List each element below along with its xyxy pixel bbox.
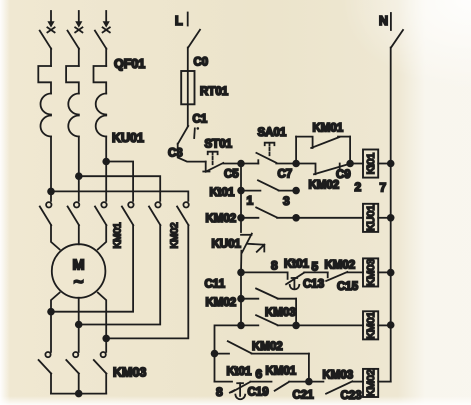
svg-text:7: 7 [380,181,387,195]
node C [102,335,110,343]
star point bar [51,393,106,395]
wire KM02 pole3 down [106,225,188,338]
svg-text:Kt01: Kt01 [227,366,253,378]
wire C19 to KM01 [250,381,271,383]
wire ST01 to C5 [223,163,241,165]
svg-text:KM03: KM03 [323,370,354,382]
node N3 [387,269,395,277]
node C7 [292,160,300,168]
svg-text:KM02: KM02 [325,260,356,272]
contactor coil KM02 [363,369,378,397]
circuit breaker QF01 pole 2 [66,31,79,94]
svg-text:KM01: KM01 [266,366,297,378]
contact Kt01 on-delay [241,272,304,289]
svg-text:C0: C0 [194,57,209,69]
svg-text:C1: C1 [193,114,208,126]
disconnect blade at L [188,30,200,48]
wire node B down [78,325,80,352]
wire KU01 coil to N [378,217,391,219]
svg-text:C23: C23 [341,390,362,402]
svg-text:C13: C13 [303,279,324,291]
svg-text:C5: C5 [224,169,239,181]
node C11 [237,269,245,277]
wire motor to node A [51,293,60,312]
svg-text:6: 6 [256,367,263,381]
node N4 [387,321,395,329]
svg-text:KU01: KU01 [365,205,377,231]
svg-text:3: 3 [283,194,290,208]
svg-text:KM02: KM02 [252,341,283,353]
supply line L3 arrow [103,11,110,32]
wire to KM01 coil [296,324,363,326]
svg-text:C21: C21 [293,390,315,402]
contact KM02 aux-4 [215,341,309,353]
svg-text:C3: C3 [168,148,183,160]
contactor KM02 main contact 2 [149,202,161,225]
wire KM01-3 to motor [98,225,106,249]
svg-text:KM01: KM01 [365,312,377,340]
wire L2 to KM02 pole 2 [79,176,160,201]
wire to KU01 coil [296,217,363,219]
svg-text:KM03: KM03 [113,366,146,380]
svg-text:Kt01: Kt01 [210,187,236,199]
svg-text:L: L [175,14,183,28]
wire N rail [390,48,392,382]
circuit breaker QF01 pole 3 [94,31,107,94]
node C5-2 [237,187,245,195]
contact KM02 aux-2 [326,272,363,281]
node R5L [237,295,245,303]
seal branch left rail [295,137,297,164]
overload relay KU01 element 2 [68,94,79,201]
contactor KM01 main contact 3 [95,202,107,225]
terminal L [175,13,188,29]
node C5-3 [237,214,245,222]
wire R8 to KM03 aux [309,381,324,383]
node R6L [237,322,245,330]
fuse RT01 [181,71,194,126]
contact KM02 aux-1 [241,207,296,217]
node L2 branch [75,172,83,180]
contact Kt01 instant [241,180,296,190]
svg-text:KM02: KM02 [206,297,237,309]
contact KM03 aux-2 [326,381,363,393]
svg-text:KU01: KU01 [112,131,144,145]
wire KM02 pole2 down [79,225,161,324]
svg-text:8: 8 [271,259,278,273]
contact KU01 NC [241,234,264,253]
wire motor to node C [98,293,106,339]
wire C9 to Kt01 coil [350,163,363,165]
terminal N [379,13,391,30]
contact KM03 aux [241,315,296,325]
wire KM01-1 to motor [51,225,60,249]
node A [47,308,55,316]
svg-text:1: 1 [247,194,254,208]
wire rung5 down [295,299,297,326]
circuit breaker QF01 pole 1 [38,31,51,94]
node N2 [387,214,395,222]
wire L3 to KM02 pole 1 [106,162,133,201]
contact KM01 aux [275,382,309,391]
node N1 [387,160,395,168]
wire rung7 down [308,354,310,382]
overload relay KU01 element 3 [96,94,107,201]
contactor KM01 main contact 2 [68,202,80,225]
svg-text:KM02: KM02 [309,180,340,192]
overload relay KU01 element 1 [41,94,52,201]
seal branch right rail [349,137,351,164]
stop button ST01 [203,152,223,172]
svg-text:C7: C7 [278,169,293,181]
contactor KM02 main contact 1 [122,202,134,225]
node C9 [346,160,354,168]
star point node [75,390,83,398]
svg-text:C19: C19 [248,387,269,399]
left rail lower [240,272,242,325]
node C5 [237,160,245,168]
svg-text:C11: C11 [205,279,226,291]
start button SA01 [241,143,296,164]
svg-text:KM03: KM03 [265,307,296,319]
svg-text:C15: C15 [337,281,359,293]
svg-text:RT01: RT01 [200,86,229,98]
contactor KM02 main contact 3 [177,202,189,225]
contactor KM03 contact 2 [66,352,79,394]
svg-text:QF01: QF01 [114,57,145,71]
contactor KM03 contact 1 [39,352,52,394]
svg-text:KM02: KM02 [170,222,181,249]
svg-text:SA01: SA01 [258,127,287,139]
left rail mid [240,251,242,273]
node R3 [292,214,300,222]
svg-text:N: N [379,14,388,28]
wire Kt01 coil to N [378,163,391,165]
svg-text:Kt01: Kt01 [365,153,377,175]
svg-text:~: ~ [74,272,84,291]
svg-text:KM02: KM02 [365,369,377,397]
svg-text:KU01: KU01 [212,239,242,251]
contactor coil KM03 [363,258,378,286]
node branch [211,350,219,358]
wire KM02 coil to N [378,381,391,383]
svg-text:8: 8 [216,385,223,399]
wire L to fuse [187,48,189,72]
timer coil Kt01 [363,150,378,178]
wire KM03 coil to N [378,271,391,273]
svg-text:5: 5 [312,260,319,274]
svg-text:ST01: ST01 [205,139,233,151]
wire motor to node B [78,298,80,325]
svg-text:KM01: KM01 [113,222,124,249]
contactor coil KM01 [363,311,378,339]
wire node C down [105,338,107,352]
wire branch left [215,325,242,381]
node R8 [305,378,313,386]
wire KM01 coil to N [378,324,391,326]
supply line L2 arrow [75,11,82,32]
wire C13 to KM02 [304,271,328,273]
wire L1 to KM02 pole 3 [51,191,188,201]
left rail upper [240,164,242,233]
supply line L1 arrow [47,11,54,32]
contact KM01 seal [296,137,350,148]
svg-text:KM03: KM03 [365,259,377,287]
svg-text:Kt01: Kt01 [284,259,310,271]
thermal cutout contact [178,126,199,144]
motor M [52,244,106,298]
svg-text:C9: C9 [336,169,351,181]
svg-text:KM01: KM01 [313,123,344,135]
contact KM02 interlock NC [296,164,350,175]
svg-text:2: 2 [355,180,362,194]
node L1 branch [47,188,55,196]
relay coil KU01 [363,204,378,232]
contactor KM01 main contact 1 [40,202,52,225]
node L3 branch [102,158,110,166]
node R2 [292,187,300,195]
wire C3 corner [178,144,206,162]
node B [75,321,83,329]
wire node A down [50,312,52,352]
contact KM02 aux-3 [241,289,296,299]
wire KM01-2 to motor [78,225,80,244]
wire KM02 pole1 down [51,225,133,312]
node R6 [292,322,300,330]
contactor KM03 contact 3 [94,352,107,394]
svg-text:KM02: KM02 [206,213,237,225]
contact Kt01 off-delay [215,382,251,400]
disconnect blade at N [391,30,403,48]
